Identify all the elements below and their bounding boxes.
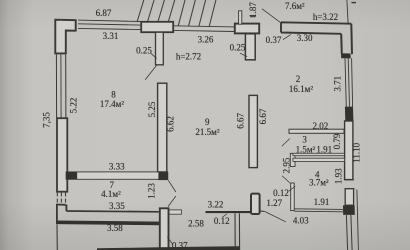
wall D lower piece <box>291 183 295 211</box>
leader 0.12 bottom <box>222 214 227 218</box>
right wall: opening ticks <box>344 179 354 181</box>
left wall: dashed window (vertical dashes) <box>57 192 65 203</box>
svg-text:3.26: 3.26 <box>198 34 214 44</box>
svg-text:0.37: 0.37 <box>266 35 282 45</box>
svg-text:0.37: 0.37 <box>172 240 188 250</box>
svg-text:4.1м²: 4.1м² <box>101 189 121 199</box>
svg-text:6.67: 6.67 <box>258 108 268 124</box>
svg-text:h=2.72: h=2.72 <box>176 51 201 61</box>
svg-text:3: 3 <box>302 135 307 145</box>
room 4 bottom wall <box>294 208 343 211</box>
leader 1.87 <box>262 9 281 23</box>
door post <box>251 194 260 214</box>
room 7 bottom wall: thick outer <box>56 221 162 226</box>
room 3 bottom wall lower <box>293 158 345 161</box>
svg-text:21.5м²: 21.5м² <box>195 127 219 137</box>
svg-text:7.6м²: 7.6м² <box>285 1 305 11</box>
svg-text:1.5м²: 1.5м² <box>296 144 316 154</box>
svg-text:1.23: 1.23 <box>147 183 157 199</box>
wall B between rooms 9 and 2 <box>249 95 257 167</box>
outer edge line bottom right <box>357 190 359 250</box>
divider wall rooms 7/8 <box>66 172 168 179</box>
svg-text:1.87: 1.87 <box>248 2 258 18</box>
filled left end of divider <box>66 172 77 179</box>
leader 2.95 lower <box>282 176 290 183</box>
right wall: hollow section 2 <box>345 189 353 206</box>
thin stub above pier 2 <box>239 11 242 24</box>
svg-text:3.22: 3.22 <box>208 200 224 210</box>
svg-text:3.58: 3.58 <box>107 223 123 233</box>
wall D upper piece <box>290 153 295 166</box>
svg-text:0.79: 0.79 <box>332 133 342 149</box>
small stub right of it <box>169 210 181 214</box>
top-right exterior wall (hollow bar) <box>281 22 351 34</box>
leader 4.03 <box>265 212 286 222</box>
tick mark top right <box>351 2 356 4</box>
svg-text:17.4м²: 17.4м² <box>100 99 124 109</box>
wall stub below pier 2 <box>245 34 255 60</box>
svg-text:2.02: 2.02 <box>313 121 329 131</box>
svg-text:2: 2 <box>296 74 301 84</box>
svg-text:3.71: 3.71 <box>333 76 343 92</box>
thin line above right corner <box>347 0 348 24</box>
svg-text:1.27: 1.27 <box>266 198 282 208</box>
svg-text:3.30: 3.30 <box>297 33 313 43</box>
svg-text:4.03: 4.03 <box>293 216 309 226</box>
wall stub below pier 1 <box>156 32 164 65</box>
svg-text:6.67: 6.67 <box>236 113 246 129</box>
line right of door post <box>260 210 265 213</box>
leader 0.37 bottom <box>167 237 172 244</box>
svg-text:h=3.22: h=3.22 <box>313 12 338 22</box>
wall between rooms 8 and 9 (hollow) <box>158 83 167 172</box>
svg-text:1.93: 1.93 <box>333 168 343 184</box>
room 3 bottom wall upper <box>293 153 345 155</box>
right wall: top hollow section faces <box>341 24 352 55</box>
svg-text:3.33: 3.33 <box>109 162 125 172</box>
leader 0.25 pier1 <box>151 53 157 58</box>
svg-text:2.95: 2.95 <box>282 157 292 173</box>
left wall: bottom corner outline <box>56 204 65 206</box>
svg-text:2.58: 2.58 <box>188 219 204 229</box>
svg-text:3.7м²: 3.7м² <box>309 178 329 188</box>
svg-text:5.22: 5.22 <box>69 98 79 114</box>
bottom exterior wall <box>97 246 240 250</box>
left wall: window lines <box>55 54 57 117</box>
right wall: hollow section <box>345 121 353 180</box>
left wall: hollow middle section <box>57 118 67 192</box>
top-left corner wall (hollow L) <box>55 20 75 54</box>
leader 0.12 upper <box>289 186 296 191</box>
thin wall 3.22 <box>206 211 252 213</box>
stair hatching above top wall <box>137 0 216 27</box>
right wall: filled junction block <box>343 205 355 215</box>
top wall lines between piers <box>174 26 235 27</box>
room 7 bottom wall: inner face <box>66 210 158 213</box>
room 3 top wall <box>289 129 344 133</box>
svg-text:0.25: 0.25 <box>136 45 152 55</box>
leader 0.25 pier2 <box>240 53 247 56</box>
svg-text:0.12: 0.12 <box>273 188 289 198</box>
svg-text:1.91: 1.91 <box>316 144 332 154</box>
pier 2 <box>235 24 259 34</box>
svg-text:0.12: 0.12 <box>214 216 230 226</box>
exterior wall piece below (hollow) <box>160 208 169 250</box>
svg-text:5.25: 5.25 <box>147 101 157 117</box>
thin interior wall C <box>234 213 236 250</box>
svg-text:7,35: 7,35 <box>42 112 52 128</box>
pier 1 <box>141 22 173 32</box>
svg-text:6.87: 6.87 <box>96 8 112 18</box>
svg-text:9: 9 <box>205 117 210 127</box>
door swing room 7 <box>168 180 176 192</box>
svg-text:0.25: 0.25 <box>230 43 246 53</box>
svg-text:11.10: 11.10 <box>352 142 362 162</box>
filled right end of divider / wall A block <box>158 172 168 180</box>
svg-text:16.1м²: 16.1м² <box>289 84 313 94</box>
right wall: window lines <box>345 58 346 106</box>
svg-text:1.91: 1.91 <box>314 197 330 207</box>
thin line below corner going down <box>56 225 58 250</box>
dash below 1.87 <box>250 16 255 18</box>
svg-text:6.62: 6.62 <box>166 116 176 132</box>
right wall lines below junction <box>346 215 347 250</box>
top wall lines west of pier 1 <box>78 20 141 21</box>
svg-text:3.35: 3.35 <box>109 201 125 211</box>
leader 0.37 top <box>283 35 291 40</box>
svg-text:3.31: 3.31 <box>103 31 119 41</box>
right wall: window sill block <box>341 53 351 58</box>
door swing at stub <box>145 65 157 80</box>
right wall: filled block 2 <box>345 107 354 121</box>
leader 2.95 upper <box>282 139 290 147</box>
